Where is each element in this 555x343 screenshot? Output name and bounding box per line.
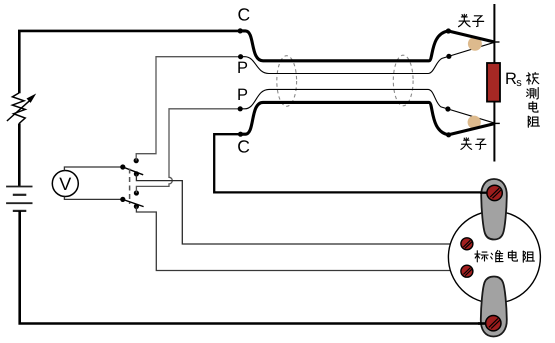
svg-text:s: s: [516, 77, 522, 89]
wire: bottom loop into bottom lug screw: [478, 322, 491, 325]
svg-text:P: P: [237, 59, 248, 77]
switch pole node upper: [120, 164, 125, 169]
node C1: [238, 28, 243, 33]
battery E plate long top: [6, 186, 32, 188]
node P2: [238, 106, 243, 111]
wire: terminal C2 to standard resistor top lug: [214, 134, 487, 192]
wire: cable P1 (sense lead to top clip): [241, 42, 495, 73]
resistor Rs (DUT) body: [487, 63, 500, 102]
DUT lead tick bottom: [495, 122, 500, 124]
wire: T2b to standard resistor lower sense screw: [136, 206, 461, 270]
wire: cable P2 (sense lead to bottom clip): [240, 89, 495, 123]
switch S1 blade lower: [123, 199, 144, 206]
svg-text:C: C: [238, 4, 251, 24]
wire: main loop top (battery + to terminal C1): [19, 31, 240, 93]
node: cable C1 at clip: [446, 28, 451, 33]
rheostat arrow head: [27, 94, 37, 103]
switch mechanical linkage dashed: [129, 169, 131, 205]
switch throw contact T1a: [134, 158, 139, 163]
clip bottom boot (tan): [468, 116, 481, 129]
wire: T1a to terminal P1: [136, 57, 240, 161]
wire: cable C2 (current lead to bottom clip): [241, 102, 449, 134]
screw: bottom lug: [486, 316, 501, 331]
wire: cable C1 (current lead to top clip): [240, 31, 448, 61]
wire: T1b to standard resistor upper sense screw: [136, 174, 461, 244]
clip top jaw upper (from C1): [448, 31, 494, 42]
svg-text:P: P: [237, 86, 248, 104]
node P1: [238, 54, 243, 59]
screw: upper sense terminal: [461, 238, 473, 250]
node C2: [238, 132, 243, 137]
label 被测电阻 (vertical): [527, 73, 539, 85]
rheostat arrow shaft: [7, 100, 30, 121]
svg-text:C: C: [237, 136, 250, 156]
label 标准电阻: [475, 251, 488, 262]
label 夹子 top: [459, 14, 471, 26]
svg-text:R: R: [505, 70, 517, 88]
wire: voltmeter bottom to switch pole 2: [64, 197, 122, 200]
switch throw contact T2a: [134, 190, 139, 195]
label 夹子 bottom: [461, 138, 472, 150]
node: cable P1 at clip: [446, 54, 451, 59]
screw: lower sense terminal: [461, 265, 473, 277]
screw: top lug: [487, 185, 502, 200]
standard resistor RN body circle: [448, 211, 540, 303]
DUT lead bar: [493, 4, 495, 162]
clip bottom jaw lower (from C2): [449, 124, 495, 135]
battery E plate short bottom: [13, 210, 26, 212]
wire: C2 feed into top lug screw: [480, 192, 492, 194]
cable shield dashed ellipse 1: [277, 56, 297, 107]
svg-text:V: V: [59, 174, 71, 194]
wire: battery - to bottom loop to standard resistor bottom lug: [20, 211, 486, 324]
node: cable C2 at clip: [446, 132, 451, 137]
node: cable P2 at clip: [445, 106, 450, 111]
switch S1 blade upper: [123, 167, 143, 175]
switch throw contact T1b: [134, 171, 139, 176]
voltmeter V circle: [52, 171, 78, 197]
standard resistor bottom lug: [481, 277, 507, 337]
battery E plate long: [6, 202, 32, 204]
switch pole node lower: [120, 197, 125, 202]
switch throw contact T2b: [134, 204, 139, 209]
wire: rheostat to battery: [18, 124, 21, 187]
clip top boot (tan): [468, 37, 482, 51]
wire: voltmeter top to switch pole 1: [64, 167, 122, 170]
battery E plate short: [13, 194, 26, 196]
rheostat RP zigzag: [12, 93, 25, 124]
wire: P2 terminal to T2a (with hop over T1b wire): [136, 109, 240, 193]
cable shield dashed ellipse 2: [393, 55, 413, 106]
standard resistor top lug: [481, 179, 507, 240]
DUT lead tick top: [494, 41, 499, 43]
